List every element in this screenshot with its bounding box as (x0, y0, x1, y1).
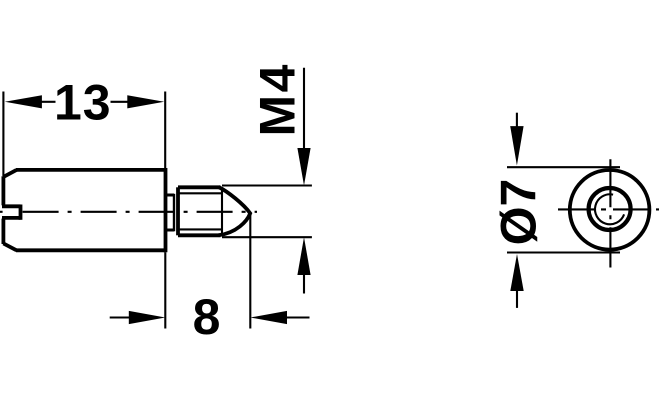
dim line diameter top stem (516, 113, 518, 127)
dim line M4 upper (303, 68, 305, 149)
extension line M4 bottom (222, 236, 312, 238)
dim line right stub 13 (111, 101, 129, 103)
arrow left 13 (5, 95, 42, 108)
body left edge lower segment (2, 219, 6, 244)
chamfer bottom-left (3, 243, 16, 250)
thread minor top (178, 192, 222, 194)
neck right edge (173, 194, 175, 232)
horizontal centerline end view (558, 208, 659, 210)
centerline side view tick (0, 211, 3, 213)
thread minor arc (595, 194, 624, 224)
vertical centerline end view (609, 159, 611, 267)
thread start edge (176, 187, 180, 235)
arrow right 13 (127, 95, 164, 108)
dim line 8 left stem (110, 316, 130, 318)
svg-text:13: 13 (54, 75, 112, 131)
arrow 8 left (129, 311, 166, 324)
centerline side view (23, 211, 257, 213)
extension line right 13 (164, 92, 166, 169)
neck bottom line (166, 229, 175, 232)
svg-text:Ø7: Ø7 (491, 179, 547, 246)
body left edge upper segment (2, 176, 6, 205)
dim line 8 right stem (287, 316, 310, 318)
dome tip curve (219, 187, 251, 235)
extension line 8 left (164, 252, 166, 328)
chamfer top-left (3, 170, 16, 177)
arrow diameter up (510, 254, 523, 291)
neck top line (166, 194, 175, 197)
extension line left 13 (2, 92, 4, 177)
ext line diameter top (507, 166, 620, 168)
dome start vertical (221, 187, 223, 235)
thread major bottom (178, 233, 221, 237)
ext line diameter bottom (507, 251, 620, 253)
arrow M4 up (297, 237, 310, 275)
slot top line (2, 204, 21, 208)
body top line (16, 168, 166, 172)
body right edge (164, 168, 168, 252)
arrow diameter down (510, 126, 523, 165)
svg-text:8: 8 (193, 289, 221, 345)
body bottom line (16, 248, 166, 252)
thread major top (178, 185, 221, 189)
slot right edge (19, 205, 23, 220)
outer circle body (570, 170, 650, 250)
svg-text:M4: M4 (250, 62, 306, 136)
slot bottom line (2, 216, 21, 220)
extension line 8 right (249, 215, 251, 329)
dim line M4 lower stem (303, 274, 305, 294)
arrow 8 right (250, 311, 287, 324)
extension line M4 top (222, 184, 312, 186)
dim line diameter bottom stem (516, 291, 518, 308)
thread minor bottom (178, 228, 222, 230)
inner circle thread major (589, 188, 631, 230)
arrow M4 down (297, 148, 310, 186)
dim line left stub 13 (41, 101, 56, 103)
